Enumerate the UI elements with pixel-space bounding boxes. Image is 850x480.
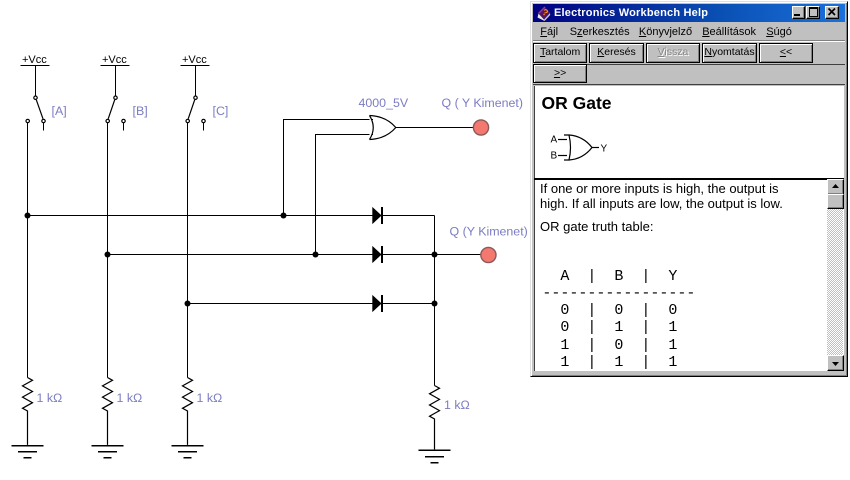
- wire bus to probe 2: [435, 254, 481, 256]
- svg-text:Y: Y: [600, 143, 607, 154]
- diode D2: [372, 246, 382, 263]
- switch [C] (closed, lever to left contact): [186, 96, 205, 131]
- svg-text:1 kΩ: 1 kΩ: [444, 398, 470, 412]
- content: scroll pane: [534, 180, 845, 371]
- title text: [554, 7, 708, 19]
- wire branch B vertical: [107, 123, 109, 378]
- wire branch C vertical: [187, 123, 189, 378]
- wire output bus (right vertical): [434, 216, 436, 386]
- node junction C-row3: [185, 301, 191, 307]
- resistor R3: [183, 378, 193, 445]
- svg-text:1 kΩ: 1 kΩ: [117, 391, 143, 405]
- svg-text:+Vcc: +Vcc: [22, 54, 47, 66]
- svg-text:[A]: [A]: [52, 104, 67, 118]
- resistor R1: [23, 378, 33, 445]
- svg-text:[B]: [B]: [133, 104, 148, 118]
- diode D1: [372, 207, 382, 224]
- ground G4: [419, 450, 451, 463]
- window buttons: [792, 6, 805, 19]
- probe Q (Y Kimenet) middle: [481, 247, 496, 262]
- ground G1: [12, 446, 44, 458]
- divider: [534, 178, 845, 180]
- wire OR gate input 2: [315, 135, 373, 255]
- svg-text:A: A: [550, 134, 557, 145]
- power +Vcc C: [181, 54, 210, 96]
- title icon (help book): [536, 5, 552, 21]
- diode D3: [372, 295, 382, 312]
- node junction bus-row3: [432, 301, 438, 307]
- svg-text:1 kΩ: 1 kΩ: [37, 391, 63, 405]
- node junction B-row2: [105, 252, 111, 258]
- wire branch A vertical: [27, 123, 29, 378]
- node junction row2-gate: [313, 252, 319, 258]
- resistor R2: [103, 378, 113, 445]
- probe Q ( Y Kimenet) top: [473, 120, 488, 135]
- mini OR-gate figure: [545, 128, 625, 168]
- toolbar row 2: [533, 64, 588, 84]
- node junction bus-row2: [432, 252, 438, 258]
- svg-text:[C]: [C]: [213, 104, 229, 118]
- ground G2: [92, 446, 124, 458]
- switch [A] (open, lever to right stub): [26, 96, 45, 131]
- toolbar row 1: [533, 42, 845, 64]
- wire OR gate input 1: [283, 120, 373, 216]
- resistor R4: [430, 386, 440, 450]
- svg-text:4000_5V: 4000_5V: [359, 96, 409, 110]
- node junction row1-gate: [281, 213, 287, 219]
- wire row 3 (C to diode D3 / bus): [188, 303, 435, 305]
- wire row 1 (A to diode D1 / bus): [28, 215, 435, 217]
- svg-text:+Vcc: +Vcc: [182, 54, 207, 66]
- wire row 2 (B to diode D2 / bus): [108, 254, 435, 256]
- svg-text:Q (Y Kimenet): Q (Y Kimenet): [450, 225, 528, 239]
- content: top pane: [534, 86, 845, 179]
- power +Vcc B: [101, 54, 130, 96]
- or-gate U1 (4000_5V): [370, 116, 396, 140]
- svg-text:+Vcc: +Vcc: [102, 54, 127, 66]
- svg-text:1 kΩ: 1 kΩ: [197, 391, 223, 405]
- switch [B] (closed, lever to left contact): [106, 96, 125, 131]
- title bar: [533, 4, 845, 22]
- svg-text:B: B: [550, 150, 557, 161]
- node junction A-row1: [25, 213, 31, 219]
- menu bar: [534, 23, 845, 40]
- scrollbar: [827, 179, 844, 370]
- wire OR gate output: [396, 127, 473, 129]
- svg-text:Q ( Y Kimenet): Q ( Y Kimenet): [442, 96, 524, 110]
- power +Vcc A: [21, 54, 50, 96]
- ground G3: [172, 446, 204, 458]
